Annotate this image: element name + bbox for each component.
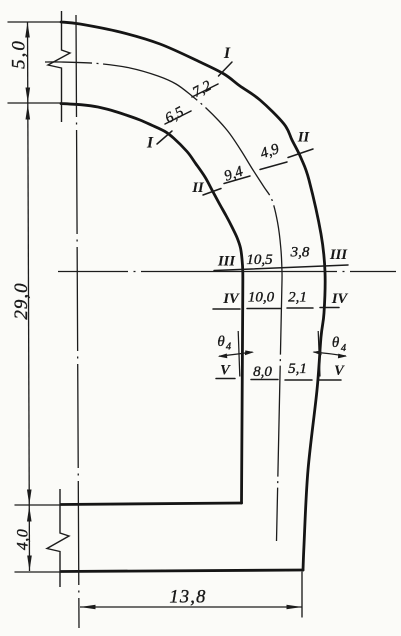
- svg-text:10,5: 10,5: [246, 252, 273, 268]
- svg-text:θ: θ: [217, 334, 225, 350]
- svg-text:5,0: 5,0: [9, 39, 30, 69]
- svg-text:3,8: 3,8: [290, 245, 310, 261]
- svg-text:4,0: 4,0: [15, 529, 32, 550]
- svg-text:I: I: [146, 135, 154, 152]
- svg-text:III: III: [329, 247, 348, 263]
- svg-text:4: 4: [341, 343, 347, 354]
- svg-text:5,1: 5,1: [288, 361, 307, 377]
- svg-text:IV: IV: [222, 291, 240, 307]
- svg-text:13,8: 13,8: [169, 588, 206, 608]
- svg-text:I: I: [223, 45, 231, 62]
- svg-text:V: V: [220, 363, 231, 379]
- svg-text:II: II: [191, 180, 205, 196]
- svg-text:IV: IV: [331, 291, 349, 307]
- svg-text:8,0: 8,0: [253, 364, 272, 380]
- svg-text:III: III: [217, 254, 236, 270]
- svg-text:10,0: 10,0: [248, 290, 275, 306]
- svg-text:4: 4: [226, 342, 232, 353]
- svg-text:II: II: [297, 130, 311, 146]
- svg-text:29,0: 29,0: [11, 282, 32, 319]
- svg-text:θ: θ: [332, 335, 340, 351]
- svg-text:2,1: 2,1: [288, 290, 307, 306]
- svg-text:V: V: [334, 363, 345, 379]
